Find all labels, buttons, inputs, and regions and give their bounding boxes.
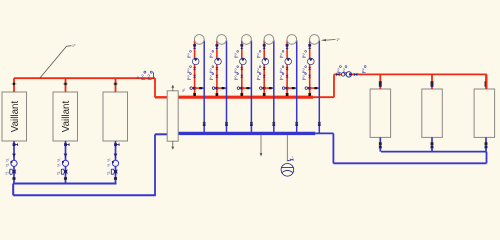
svg-text:2: 2 — [280, 75, 283, 80]
svg-text:²: ² — [292, 155, 293, 159]
svg-text:2²: 2² — [6, 164, 10, 168]
svg-text:2: 2 — [257, 75, 260, 80]
svg-text:2²: 2² — [57, 164, 61, 168]
svg-text:2: 2 — [257, 52, 260, 57]
svg-text:2: 2 — [302, 52, 305, 57]
svg-text:2: 2 — [187, 75, 190, 80]
svg-text:a²: a² — [182, 88, 186, 92]
svg-text:2²: 2² — [107, 164, 111, 168]
svg-text:2²: 2² — [6, 159, 10, 163]
svg-text:2: 2 — [337, 68, 340, 73]
svg-text:2: 2 — [302, 75, 305, 80]
svg-text:Vaillant: Vaillant — [61, 101, 72, 133]
svg-text:2: 2 — [234, 52, 237, 57]
svg-text:1º: 1º — [72, 44, 76, 48]
svg-text:2³: 2³ — [57, 172, 61, 176]
svg-text:2: 2 — [362, 68, 365, 73]
svg-text:1º: 1º — [336, 38, 340, 42]
svg-text:2: 2 — [343, 68, 346, 73]
svg-text:2: 2 — [280, 52, 283, 57]
svg-text:2: 2 — [302, 68, 305, 73]
svg-text:2: 2 — [187, 68, 190, 73]
svg-text:2²: 2² — [107, 159, 111, 163]
svg-text:Vaillant: Vaillant — [10, 101, 21, 133]
svg-text:2³: 2³ — [107, 172, 111, 176]
svg-text:2: 2 — [209, 52, 212, 57]
svg-text:2: 2 — [280, 68, 283, 73]
svg-text:2²: 2² — [57, 159, 61, 163]
svg-text:2: 2 — [209, 75, 212, 80]
svg-text:2: 2 — [187, 52, 190, 57]
svg-text:2: 2 — [234, 68, 237, 73]
svg-text:2: 2 — [234, 75, 237, 80]
svg-text:2³: 2³ — [5, 172, 9, 176]
svg-text:2: 2 — [209, 68, 212, 73]
svg-text:2: 2 — [257, 68, 260, 73]
